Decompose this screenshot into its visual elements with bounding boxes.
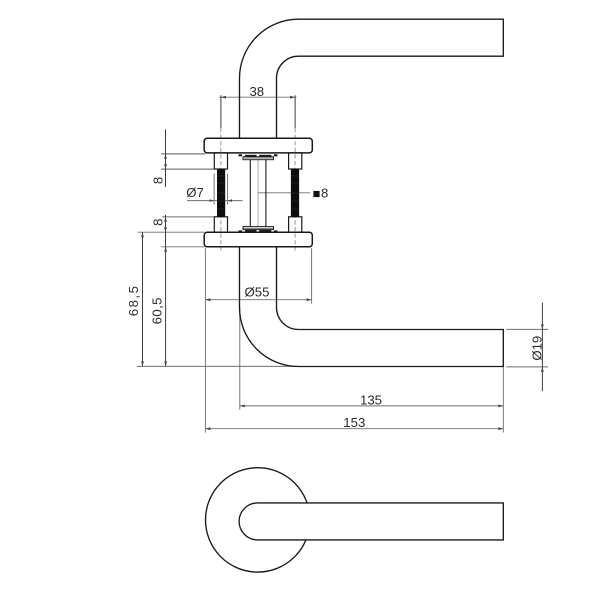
svg-text:135: 135 xyxy=(360,392,382,407)
svg-text:Ø55: Ø55 xyxy=(245,285,270,300)
svg-text:8: 8 xyxy=(321,185,328,200)
svg-text:153: 153 xyxy=(343,415,365,430)
svg-text:38: 38 xyxy=(249,84,264,99)
svg-text:68,5: 68,5 xyxy=(126,285,141,317)
svg-text:8: 8 xyxy=(150,177,165,184)
svg-text:60,5: 60,5 xyxy=(150,297,165,324)
svg-text:8: 8 xyxy=(150,219,165,226)
svg-text:Ø19: Ø19 xyxy=(529,336,544,361)
svg-text:Ø7: Ø7 xyxy=(186,185,204,200)
